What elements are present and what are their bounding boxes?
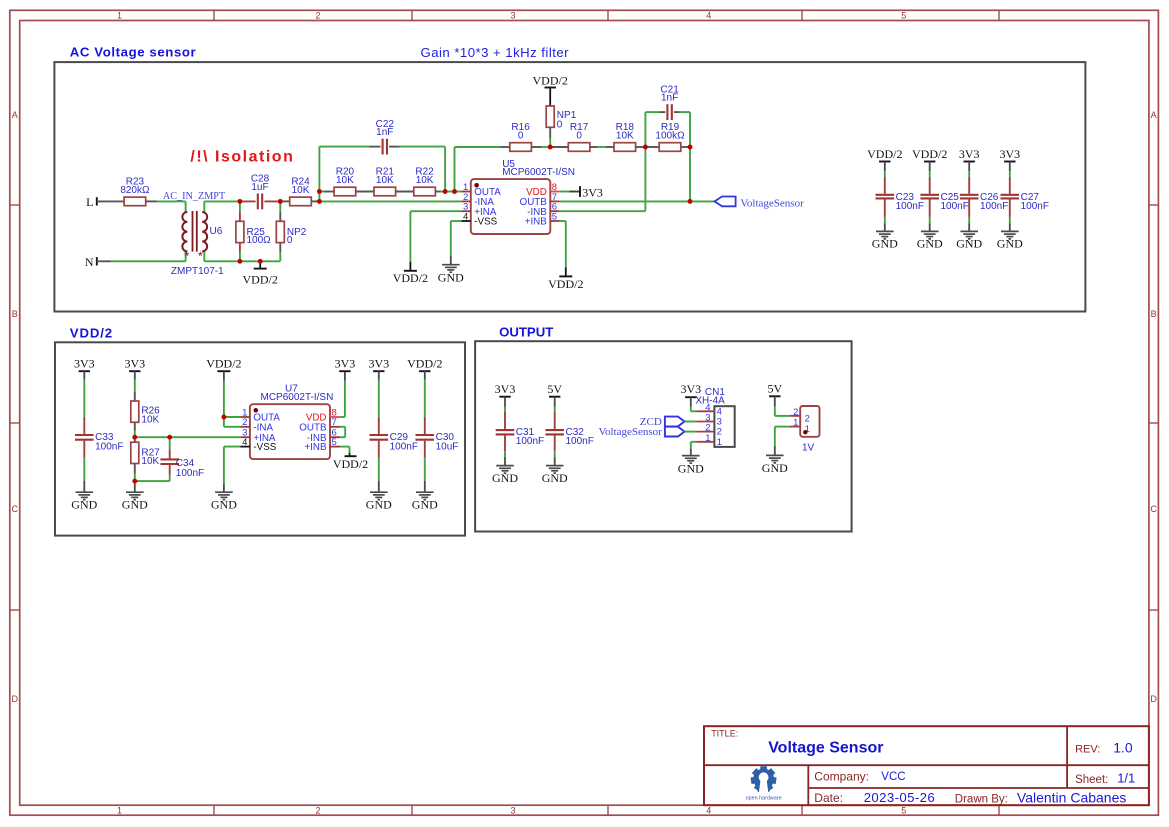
svg-text:GND: GND	[678, 461, 704, 475]
ruler zone letters right	[1150, 110, 1157, 704]
wire node J2 to opamp pin3	[170, 436, 241, 438]
svg-text:2: 2	[805, 414, 810, 425]
resistor NP2	[276, 212, 306, 252]
wire NP2 to bottom rail	[279, 252, 281, 261]
capacitor C28	[240, 174, 280, 210]
ground below C32	[542, 466, 568, 485]
wire opamp pin3 to VDD/2	[410, 210, 461, 212]
svg-text:OUTPUT: OUTPUT	[499, 325, 553, 340]
svg-text:VDD/2: VDD/2	[407, 357, 442, 371]
wire C31 bottom	[504, 451, 506, 466]
junction node A	[237, 199, 242, 204]
junction node E	[452, 189, 457, 194]
svg-text:MCP6002T-I/SN: MCP6002T-I/SN	[502, 167, 575, 178]
svg-text:MCP6002T-I/SN: MCP6002T-I/SN	[261, 392, 334, 403]
wire C29 bottom	[378, 457, 380, 492]
resistor R24	[290, 177, 312, 206]
junction node L	[221, 415, 226, 420]
svg-text:GND: GND	[438, 271, 464, 285]
svg-text:10K: 10K	[141, 414, 159, 425]
ruler zone numbers bottom	[117, 805, 906, 815]
wire node A down to R25	[239, 201, 241, 211]
wire R24 to node C	[312, 200, 320, 202]
port L	[86, 195, 97, 209]
junction node H	[688, 145, 693, 150]
svg-text:10uF: 10uF	[436, 441, 459, 452]
wire node G to R19	[645, 146, 658, 148]
svg-text:3V3: 3V3	[124, 357, 145, 371]
power VDD/2 above U7	[206, 357, 241, 381]
svg-text:7: 7	[332, 417, 337, 428]
svg-text:+INB: +INB	[304, 442, 327, 453]
svg-text:Company:: Company:	[814, 770, 869, 784]
wire R26 to node J	[134, 422, 136, 437]
svg-text:C: C	[1150, 504, 1157, 514]
svg-text:4: 4	[706, 11, 711, 21]
wire C32 bottom	[554, 451, 556, 466]
wire C25 top	[929, 171, 931, 177]
capacitor C21	[660, 84, 679, 120]
wire C33 bottom	[83, 457, 85, 492]
wire C32 top	[554, 407, 556, 411]
ruler zone numbers top	[117, 11, 906, 21]
svg-text:1: 1	[717, 437, 722, 448]
capacitor C27	[1001, 177, 1049, 217]
svg-text:1: 1	[117, 11, 122, 21]
resistor R26	[131, 401, 160, 425]
wire VDD/2 to node L	[223, 381, 225, 418]
svg-text:4: 4	[463, 211, 468, 222]
ground below C26	[956, 231, 982, 250]
svg-text:ZMPT107-1: ZMPT107-1	[171, 266, 224, 277]
connector 1V	[790, 406, 820, 454]
ground below C29	[366, 492, 392, 511]
svg-text:GND: GND	[71, 498, 97, 512]
svg-text:VDD/2: VDD/2	[333, 457, 368, 471]
power VDD/2 above C30	[407, 357, 442, 380]
ground below U7	[211, 492, 237, 511]
ground below 1V connector	[762, 455, 788, 475]
wire R21 to R22	[396, 191, 415, 193]
wire node J to C34	[135, 436, 170, 438]
wire VoltageSensor to CN1 pin2	[685, 431, 697, 433]
svg-text:Date:: Date:	[814, 791, 843, 805]
junction node C	[317, 199, 322, 204]
svg-text:GND: GND	[366, 498, 392, 512]
capacitor C31	[496, 411, 544, 451]
ruler zone letters left	[11, 110, 18, 704]
svg-text:100nF: 100nF	[516, 436, 544, 447]
capacitor C32	[545, 411, 593, 451]
svg-text:1uF: 1uF	[251, 182, 268, 193]
op-amp U7 MCP6002T-I/SN	[240, 384, 340, 460]
wire node E to opamp pin 1	[455, 191, 462, 193]
svg-text:N: N	[85, 255, 94, 269]
resistor R25	[236, 212, 271, 252]
svg-text:A: A	[1151, 110, 1157, 120]
svg-text:D: D	[11, 694, 18, 704]
ground below CN1	[678, 456, 704, 476]
svg-text:2: 2	[242, 417, 247, 428]
svg-text:GND: GND	[412, 498, 438, 512]
wire N to transformer	[97, 260, 186, 262]
wire opamp pin4 to GND	[451, 221, 462, 265]
svg-text:5: 5	[901, 805, 906, 815]
svg-text:VDD/2: VDD/2	[912, 147, 947, 161]
ground below C23	[872, 231, 898, 250]
svg-text:VDD/2: VDD/2	[867, 147, 902, 161]
svg-text:3V3: 3V3	[368, 357, 389, 371]
capacitor C30	[416, 417, 459, 457]
svg-text:Sheet:: Sheet:	[1075, 774, 1108, 786]
svg-text:2: 2	[315, 11, 320, 21]
junction bottom rail at R25	[237, 259, 242, 264]
svg-text:VDD/2: VDD/2	[206, 357, 241, 371]
wire node C2 to R20	[319, 191, 334, 193]
wire opamp pin7 to output node	[560, 200, 690, 202]
wire node E up to R16 row	[454, 147, 456, 192]
svg-text:5: 5	[901, 11, 906, 21]
svg-text:3V3: 3V3	[999, 147, 1020, 161]
wire R17 to R18	[589, 146, 614, 148]
wire connector pin1 to GND	[775, 427, 790, 456]
section box OUTPUT	[475, 341, 851, 531]
svg-text:3: 3	[510, 11, 515, 21]
resistor R21	[374, 167, 396, 196]
section box AC Voltage sensor	[54, 62, 1085, 311]
wire C26 top	[968, 171, 970, 177]
wire opamp pin8 to 3V3	[340, 371, 345, 417]
resistor R17	[568, 122, 590, 151]
wire R20 to R21	[355, 191, 374, 193]
power 3V3 above U7 pin8	[335, 357, 356, 372]
wire C23 bottom	[884, 217, 886, 232]
ground below C30	[412, 492, 438, 511]
wire C21 right riser	[674, 112, 690, 147]
wire node C up to R20 row and C22 row	[318, 147, 320, 202]
wire R27 to node K	[134, 464, 136, 482]
wire node K to GND	[134, 481, 136, 492]
power 3V3 above C31	[495, 382, 516, 407]
capacitor C26	[960, 177, 1008, 217]
wire opamp pin6 feedback to node G	[560, 147, 646, 211]
wire transformer to node A	[204, 200, 240, 202]
power 3V3 above C26	[959, 147, 980, 171]
op-amp U5 MCP6002T-I/SN	[461, 159, 575, 234]
svg-text:3V3: 3V3	[680, 382, 701, 396]
wire C30 top	[424, 380, 426, 417]
ground below C31	[492, 466, 518, 485]
connector CN1 XH-4A	[695, 387, 734, 448]
svg-text:C: C	[11, 504, 18, 514]
wire C22 row right	[389, 147, 445, 192]
svg-text:4: 4	[242, 437, 247, 448]
wire C22 row left	[319, 146, 380, 148]
title block outline	[704, 726, 1149, 805]
svg-text:*: *	[184, 249, 189, 264]
wire node B to R24	[280, 200, 289, 202]
svg-text:5: 5	[552, 211, 557, 222]
transformer U6 ZMPT107-1	[171, 201, 224, 276]
svg-text:GND: GND	[492, 471, 518, 485]
wire R25 to bottom rail	[239, 252, 241, 261]
ground below C25	[917, 231, 943, 250]
junction node G	[643, 145, 648, 150]
resistor R23	[120, 177, 150, 206]
svg-text:VDD/2: VDD/2	[548, 277, 583, 291]
section box VDD/2	[55, 342, 465, 535]
hierarchical label VoltageSensor	[715, 197, 805, 210]
wire 3V3 to R26	[134, 380, 136, 401]
junction node D	[443, 189, 448, 194]
junction node J	[132, 435, 137, 440]
svg-text:5V: 5V	[767, 382, 782, 396]
svg-text:1nF: 1nF	[376, 127, 393, 138]
wire opamp pin7 to pin6 feedback	[340, 427, 345, 437]
svg-text:VDD/2: VDD/2	[533, 74, 568, 88]
svg-text:AC Voltage sensor: AC Voltage sensor	[70, 44, 196, 59]
wire R18 to node G	[635, 146, 645, 148]
svg-text:TITLE:: TITLE:	[711, 729, 738, 739]
svg-text:GND: GND	[956, 237, 982, 251]
svg-text:2: 2	[793, 407, 798, 418]
power VDD/2 below bottom rail	[243, 261, 278, 286]
svg-text:GND: GND	[762, 461, 788, 475]
svg-text:10K: 10K	[336, 175, 354, 186]
svg-text:A: A	[12, 110, 18, 120]
wire node B down to NP2	[279, 201, 281, 211]
svg-text:1: 1	[793, 418, 798, 429]
svg-text:100nF: 100nF	[176, 468, 204, 479]
wire R23 to transformer	[146, 200, 186, 202]
svg-text:4: 4	[706, 805, 711, 815]
svg-text:Voltage Sensor: Voltage Sensor	[768, 740, 883, 757]
wire opamp pin5 to VDD/2	[560, 221, 566, 276]
wire C29 top	[378, 380, 380, 417]
svg-text:Valentin Cabanes: Valentin Cabanes	[1017, 789, 1126, 805]
wire node F to R17	[550, 146, 569, 148]
junction node F	[548, 145, 553, 150]
svg-text:10K: 10K	[141, 456, 159, 467]
svg-text:-VSS: -VSS	[253, 442, 276, 453]
svg-text:3V3: 3V3	[74, 357, 95, 371]
svg-text:-VSS: -VSS	[474, 217, 497, 228]
svg-text:VDD/2: VDD/2	[70, 326, 113, 341]
wire C21 left riser	[645, 112, 665, 147]
svg-text:100kΩ: 100kΩ	[655, 130, 685, 141]
svg-text:100nF: 100nF	[941, 201, 969, 212]
junction bottom rail at VDD/2 tap	[258, 259, 263, 264]
wire L to R23	[97, 200, 124, 202]
power 3V3 above C33	[74, 357, 95, 380]
logo open source hardware	[746, 766, 782, 801]
power VDD/2 above C23	[867, 147, 902, 171]
capacitor C22	[376, 119, 395, 155]
svg-text:100nF: 100nF	[95, 441, 123, 452]
junction node J2	[167, 435, 172, 440]
resistor R20	[334, 167, 356, 196]
wire opamp pin2 to node C	[319, 200, 461, 202]
svg-text:GND: GND	[872, 237, 898, 251]
wire C23 top	[884, 171, 886, 177]
svg-text:VCC: VCC	[881, 771, 905, 783]
svg-text:1V: 1V	[802, 443, 815, 454]
wire C34 to node K	[135, 475, 170, 481]
svg-text:AC_IN_ZMPT: AC_IN_ZMPT	[163, 191, 226, 202]
svg-text:1.0: 1.0	[1113, 740, 1133, 756]
power VDD/2 below pin5	[548, 276, 583, 291]
svg-text:+INB: +INB	[525, 217, 548, 228]
capacitor C34	[160, 437, 204, 479]
wire R16 to node F	[531, 146, 550, 148]
capacitor C25	[920, 177, 968, 217]
svg-text:2023-05-26: 2023-05-26	[864, 790, 935, 805]
svg-text:100nF: 100nF	[896, 201, 924, 212]
resistor R27	[131, 437, 160, 467]
svg-text:B: B	[12, 309, 18, 319]
junction output node	[688, 199, 693, 204]
svg-text:10K: 10K	[616, 130, 634, 141]
ground below C27	[997, 231, 1023, 250]
wire C25 bottom	[929, 217, 931, 232]
power 3V3 above CN1 pin4	[680, 382, 701, 406]
svg-text:L: L	[86, 195, 93, 209]
svg-text:10K: 10K	[416, 175, 434, 186]
svg-text:1: 1	[705, 433, 710, 444]
svg-text:5V: 5V	[547, 382, 562, 396]
svg-text:GND: GND	[211, 498, 237, 512]
capacitor C33	[75, 417, 123, 457]
wire bottom rail	[204, 260, 280, 262]
wire R19 to node H	[682, 146, 690, 148]
svg-text:*: *	[198, 249, 203, 264]
svg-text:1: 1	[117, 805, 122, 815]
wire R16 row from node E riser	[455, 146, 510, 148]
svg-text:VDD/2: VDD/2	[393, 271, 428, 285]
svg-text:GND: GND	[542, 471, 568, 485]
wire 3V3 to CN1 pin4	[691, 407, 696, 412]
wire ZCD to CN1 pin3	[685, 421, 697, 423]
svg-text:open hardware: open hardware	[746, 796, 782, 802]
wire node D to node E	[445, 191, 454, 193]
hierarchical label VoltageSensor output	[598, 426, 684, 438]
ground below opamp U5	[438, 265, 464, 285]
resistor R18	[614, 122, 636, 151]
power 5V above 1V connector	[767, 382, 782, 407]
svg-text:3V3: 3V3	[959, 147, 980, 161]
svg-text:D: D	[1150, 694, 1157, 704]
power 5V above C32	[547, 382, 562, 407]
svg-text:/!\ Isolation: /!\ Isolation	[190, 149, 294, 166]
resistor R22	[414, 167, 436, 196]
svg-text:100Ω: 100Ω	[247, 235, 272, 246]
svg-text:GND: GND	[917, 237, 943, 251]
wire opamp pin5 to VDD/2	[340, 447, 349, 457]
svg-text:GND: GND	[122, 498, 148, 512]
svg-text:10K: 10K	[376, 175, 394, 186]
ground below R27	[122, 492, 148, 511]
wire C26 bottom	[968, 217, 970, 232]
wire opamp pin8 to 3V3	[560, 186, 580, 197]
svg-text:-INA: -INA	[253, 422, 273, 433]
svg-text:U6: U6	[210, 226, 223, 237]
capacitor C23	[876, 177, 924, 217]
junction node B	[278, 199, 283, 204]
port N	[85, 255, 97, 269]
power 3V3 above C27	[999, 147, 1020, 171]
svg-text:0: 0	[518, 130, 524, 141]
power 3V3 above R26	[124, 357, 145, 380]
wire C27 top	[1009, 171, 1011, 177]
svg-text:1nF: 1nF	[661, 93, 678, 104]
power VDD/2 above C25	[912, 147, 947, 171]
svg-text:VoltageSensor: VoltageSensor	[598, 426, 662, 438]
svg-text:5: 5	[332, 437, 337, 448]
ground below C33	[71, 492, 97, 511]
hierarchical label ZCD	[640, 416, 685, 428]
svg-text:0: 0	[287, 235, 293, 246]
wire node L to opamp pin2	[224, 417, 241, 427]
junction node C2 on R20 row	[317, 189, 322, 194]
svg-text:100nF: 100nF	[980, 201, 1008, 212]
svg-text:B: B	[1151, 309, 1157, 319]
wire C31 top	[504, 407, 506, 411]
resistor R19	[655, 122, 685, 151]
wire opamp pin4 to GND	[224, 447, 241, 493]
svg-text:100nF: 100nF	[1021, 201, 1049, 212]
svg-text:10K: 10K	[292, 185, 310, 196]
power VDD/2 above NP1	[533, 74, 568, 106]
svg-text:VoltageSensor: VoltageSensor	[740, 197, 804, 209]
resistor NP1	[546, 106, 576, 147]
wire C27 bottom	[1009, 217, 1011, 232]
svg-text:3V3: 3V3	[335, 357, 356, 371]
svg-text:3V3: 3V3	[495, 382, 516, 396]
svg-text:REV:: REV:	[1075, 744, 1100, 756]
wire C30 bottom	[424, 457, 426, 492]
svg-text:100nF: 100nF	[566, 436, 594, 447]
svg-text:VDD/2: VDD/2	[243, 272, 278, 286]
svg-text:0: 0	[557, 119, 563, 130]
power VDD/2 below U7 pin5	[333, 456, 368, 471]
svg-text:3V3: 3V3	[582, 186, 603, 200]
junction node K	[132, 479, 137, 484]
svg-text:Drawn By:: Drawn By:	[955, 793, 1008, 805]
wire 5V to connector pin2	[775, 406, 790, 416]
svg-text:Gain *10*3 + 1kHz filter: Gain *10*3 + 1kHz filter	[421, 45, 570, 60]
svg-text:1/1: 1/1	[1117, 770, 1135, 785]
resistor R16	[510, 122, 532, 151]
svg-text:100nF: 100nF	[390, 441, 418, 452]
wire node L to opamp pin1	[224, 416, 241, 418]
svg-text:OUTB: OUTB	[299, 422, 327, 433]
svg-text:2: 2	[315, 805, 320, 815]
svg-text:0: 0	[576, 130, 582, 141]
power VDD/2 below pin3	[393, 262, 428, 285]
wire R22 to node D	[435, 191, 445, 193]
svg-text:820kΩ: 820kΩ	[120, 185, 150, 196]
svg-text:GND: GND	[997, 237, 1023, 251]
capacitor C29	[370, 417, 418, 457]
wire node H to output node	[689, 147, 691, 201]
power 3V3 above C29	[368, 357, 389, 380]
wire C33 top	[83, 380, 85, 417]
wire output node to hierarchical label	[690, 200, 715, 202]
svg-text:3: 3	[510, 805, 515, 815]
wire CN1 pin1 to GND	[691, 442, 696, 456]
